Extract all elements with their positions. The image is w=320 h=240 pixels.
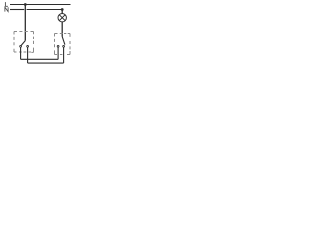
wire N rail (gap where vertical wire crosses) [10, 9, 24, 11]
switch S2 contact b (circle) [63, 45, 65, 47]
switch S1 lever [21, 41, 25, 46]
switch S1 contact a (circle) [20, 45, 22, 47]
node L label [5, 2, 8, 6]
wire L rail [10, 4, 71, 6]
wire S1b down [27, 47, 29, 63]
switch S1 enclosure (dashed box) [14, 32, 34, 53]
switch S1 contact b (circle) [27, 45, 29, 47]
lamp E1 cross [59, 15, 65, 21]
wire N to lamp [61, 10, 63, 14]
junction on N rail [61, 8, 64, 11]
wire S2b down [63, 47, 65, 63]
wire S1a down [20, 47, 22, 59]
wire S2a down [57, 47, 59, 59]
wire traveller 2 [28, 62, 64, 64]
wire traveller 1 [21, 58, 59, 60]
node N label [5, 7, 8, 11]
switch S2 lever [62, 37, 65, 45]
junction on L rail [24, 3, 27, 6]
switch S2 contact a (circle) [57, 45, 59, 47]
background [0, 0, 80, 70]
wire from L to switch S1 [24, 5, 26, 41]
wire lamp to switch S2 [61, 22, 63, 37]
switch S2 enclosure (dashed box) [55, 34, 71, 55]
lamp E1 circle [58, 14, 66, 22]
